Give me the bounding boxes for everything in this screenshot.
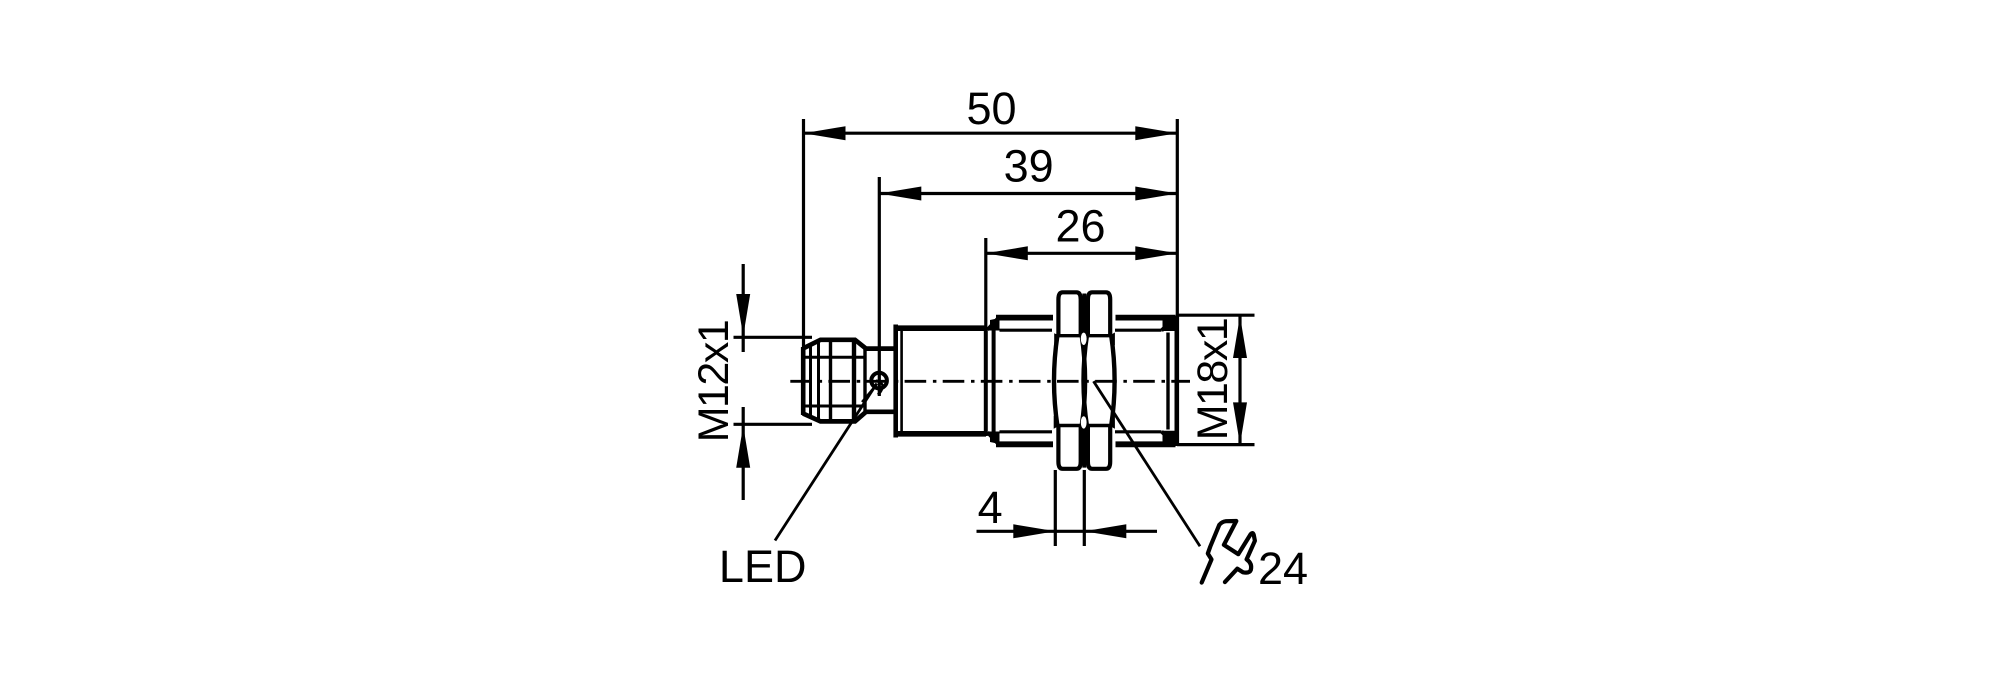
- dimension 26: [986, 201, 1178, 261]
- hex nut 2: [1084, 292, 1115, 469]
- svg-text:50: 50: [966, 83, 1016, 134]
- LED leader hook: [876, 381, 883, 395]
- dimension 39 extension line: [878, 177, 881, 396]
- shared edge white lens details: [1081, 333, 1087, 345]
- dimension 39: [879, 141, 1177, 201]
- wrench symbol: [1202, 521, 1255, 583]
- LED leader line: [775, 384, 877, 541]
- hex nut shared edge: [1082, 294, 1086, 468]
- svg-text:24: 24: [1258, 543, 1308, 594]
- dimension 26 extension line: [984, 238, 987, 330]
- hex nut 2 chamfer wedges: [1083, 333, 1115, 429]
- dimension 50 extension line left: [802, 119, 805, 347]
- hex nut 1 chamfer wedges: [1054, 333, 1086, 429]
- dimension M18x1: [1177, 315, 1255, 444]
- LED window circle: [871, 373, 887, 389]
- svg-text:39: 39: [1004, 141, 1054, 192]
- centerline axis: [790, 380, 1190, 383]
- svg-text:M12x1: M12x1: [690, 321, 738, 443]
- barrel M18 thread section: [988, 316, 1177, 446]
- svg-text:4: 4: [978, 482, 1003, 533]
- LED leader second stroke: [862, 387, 875, 402]
- svg-text:M18x1: M18x1: [1189, 319, 1237, 441]
- hex nut 1: [1054, 292, 1085, 469]
- dimension extension line right (50/39/26): [1176, 119, 1179, 317]
- connector inner lines: [803, 341, 865, 421]
- housing cylinder: [894, 325, 994, 438]
- dimension 50: [804, 83, 1178, 140]
- dimension 4 (nut width): [977, 470, 1158, 546]
- svg-text:LED: LED: [719, 541, 807, 592]
- wrench leader line: [1094, 381, 1201, 546]
- dimension M12x1: [690, 264, 812, 500]
- connector M12 outline: [803, 340, 894, 422]
- svg-text:26: 26: [1055, 201, 1105, 252]
